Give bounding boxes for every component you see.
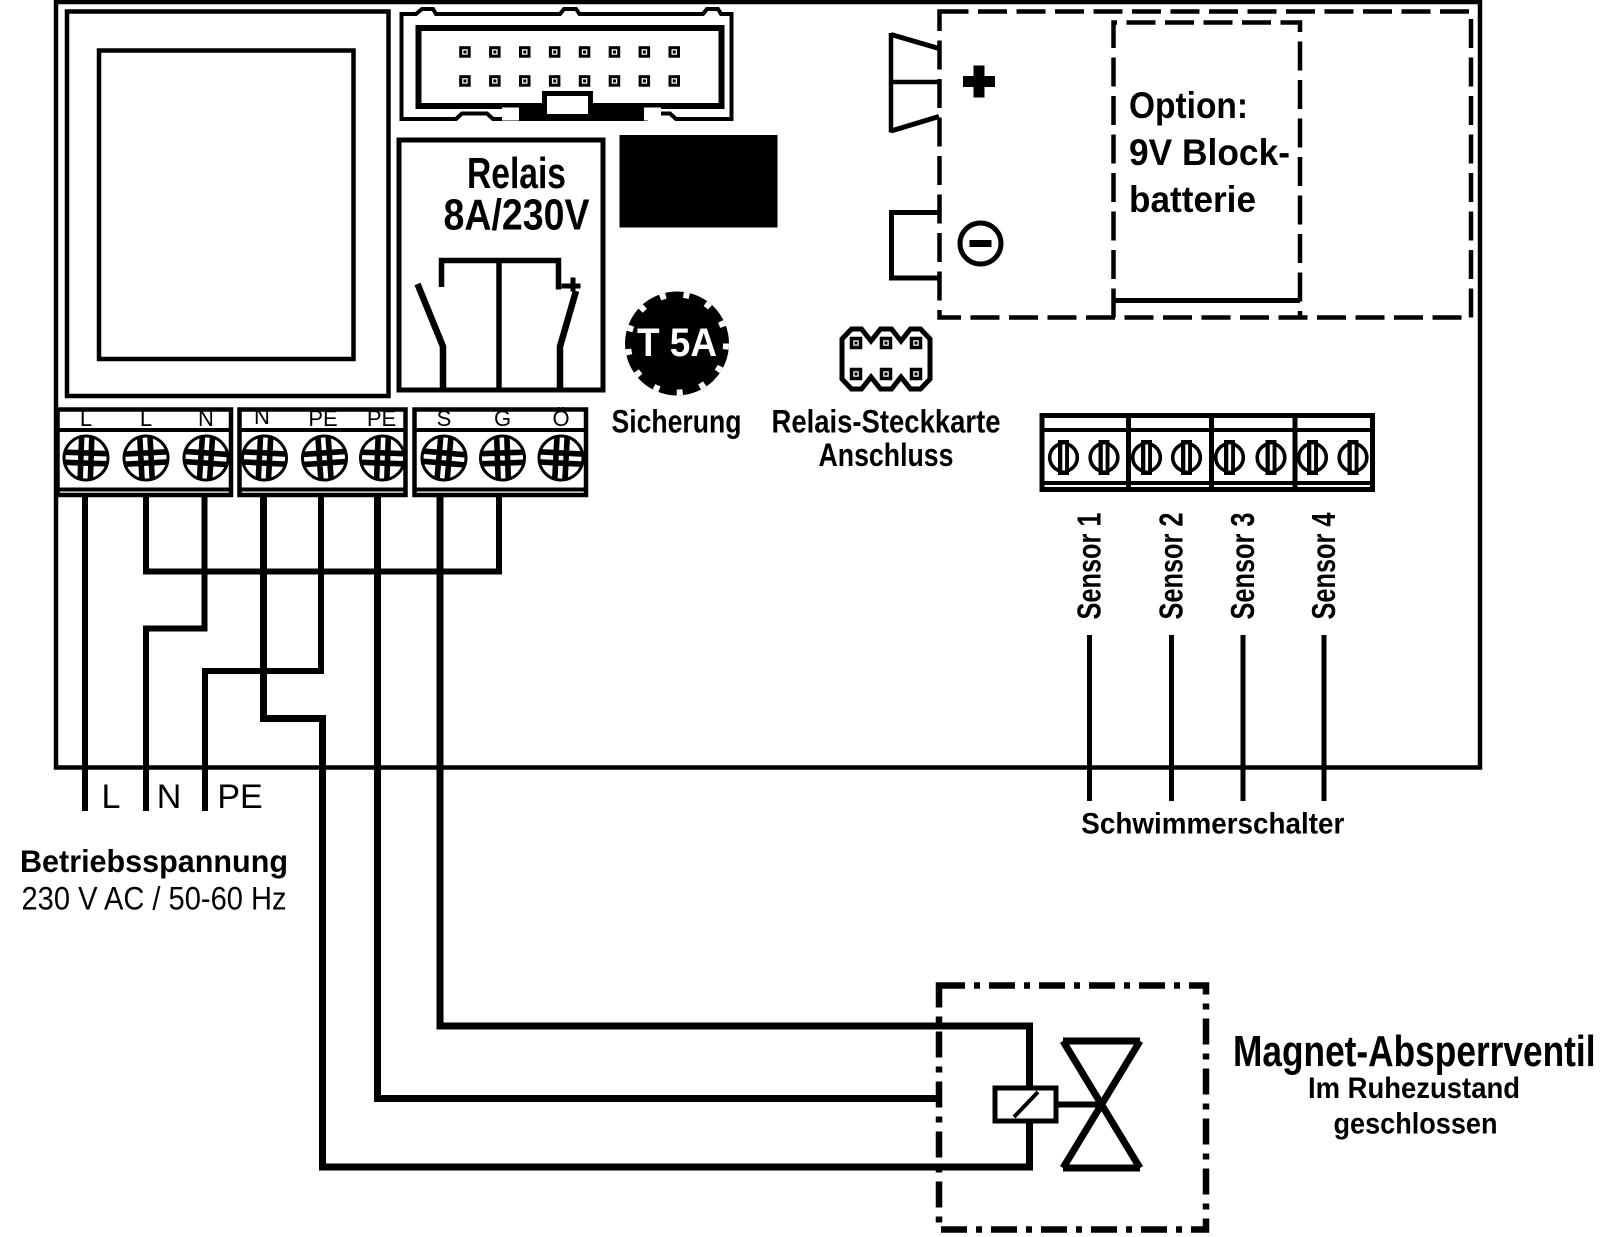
X4 Sensor 2 screw terminals <box>1133 440 1201 475</box>
svg-text:Sensor 1: Sensor 1 <box>1071 513 1108 620</box>
svg-text:Relais-Steckkarte: Relais-Steckkarte <box>772 404 1001 440</box>
svg-text:Im Ruhezustand: Im Ruhezustand <box>1308 1072 1520 1105</box>
minus clip symbol <box>892 213 942 279</box>
IDC connector J1 body <box>419 28 722 106</box>
display module inner window <box>99 51 354 360</box>
IDC connector J1 outline <box>402 9 732 119</box>
sensor wire 2 <box>1169 635 1174 801</box>
relay coil center lead <box>496 261 502 391</box>
X4 Sensor 4 screw terminals <box>1299 440 1367 475</box>
svg-text:Betriebsspannung: Betriebsspannung <box>20 843 288 879</box>
svg-text:N: N <box>254 404 270 429</box>
sensor terminal block X4 <box>1042 416 1373 490</box>
svg-text:230 V AC / 50-60 Hz: 230 V AC / 50-60 Hz <box>22 881 287 917</box>
display module outer frame <box>67 12 389 397</box>
X4 Sensor 1 screw terminals <box>1050 440 1118 475</box>
valve symbol <box>1063 1041 1140 1168</box>
minus terminal mark <box>960 223 1001 264</box>
svg-text:T 5A: T 5A <box>637 321 717 365</box>
plus terminal mark <box>963 66 995 98</box>
svg-text:PE: PE <box>308 406 337 431</box>
terminal block X2 (N PE PE) <box>240 410 406 496</box>
IDC connector J1 key area <box>519 103 644 121</box>
svg-text:Sensor 4: Sensor 4 <box>1305 512 1342 619</box>
svg-text:N: N <box>157 778 182 816</box>
svg-text:Sicherung: Sicherung <box>612 404 742 440</box>
wire PE2 to valve earth <box>378 495 941 1099</box>
X2 screw 3 <box>360 435 406 481</box>
svg-text:L: L <box>140 406 152 431</box>
svg-text:Sensor 2: Sensor 2 <box>1153 513 1190 620</box>
relay NC mark (plus) <box>562 278 581 292</box>
sensor wire 3 <box>1241 635 1246 801</box>
svg-text:9V Block-: 9V Block- <box>1129 132 1290 173</box>
svg-text:PE: PE <box>217 778 262 816</box>
X3 screw 3 <box>538 435 584 481</box>
svg-text:Anschluss: Anschluss <box>819 437 954 473</box>
buzzer / plus clip symbol <box>889 33 894 133</box>
wire S to valve coil feed <box>440 495 1030 1088</box>
svg-text:L: L <box>102 778 121 816</box>
wire N1 to mains N exit <box>146 495 205 811</box>
relay switch blade left (S) <box>418 284 444 390</box>
wire L1 (mains L) <box>82 495 88 811</box>
wire N2 to valve coil return <box>264 495 1030 1167</box>
relay box K1 <box>399 140 603 390</box>
X4 Sensor 3 screw terminals <box>1216 440 1285 475</box>
svg-text:Ö: Ö <box>552 406 569 431</box>
svg-text:geschlossen: geschlossen <box>1334 1108 1498 1141</box>
svg-text:N: N <box>198 406 214 431</box>
relay contact bracket <box>442 261 559 290</box>
fuse F1 body <box>625 292 729 396</box>
relay card header J2 outline <box>842 329 930 389</box>
svg-text:PE: PE <box>367 406 396 431</box>
svg-text:L: L <box>80 406 92 431</box>
X1 screw 2 <box>123 435 169 481</box>
IDC connector J1 pins <box>459 46 680 86</box>
svg-text:Magnet-Absperrventil: Magnet-Absperrventil <box>1233 1027 1596 1076</box>
svg-text:batterie: batterie <box>1129 179 1256 220</box>
svg-text:G: G <box>494 406 511 431</box>
IDC connector J1 polarization key <box>545 94 591 117</box>
sensor wire 1 <box>1087 635 1092 801</box>
wire L2 to relay common G <box>146 495 499 572</box>
solenoid coil <box>995 1088 1056 1121</box>
svg-text:Schwimmerschalter: Schwimmerschalter <box>1081 808 1344 841</box>
svg-text:Option:: Option: <box>1129 85 1248 126</box>
9V battery bottom plate <box>1114 298 1301 303</box>
board outline <box>56 2 1480 768</box>
black module (transformer) <box>620 135 778 228</box>
X2 screw 2 <box>301 435 348 482</box>
valve dash-dot enclosure <box>939 986 1206 1230</box>
battery option dashed enclosure <box>940 12 1472 318</box>
svg-text:Sensor 3: Sensor 3 <box>1224 513 1261 620</box>
svg-text:S: S <box>437 406 452 431</box>
relay switch blade right (Ö) <box>560 291 576 390</box>
X1 screw 1 <box>63 435 109 481</box>
coil to valve link <box>1056 1102 1102 1108</box>
X2 screw 1 <box>241 435 287 481</box>
svg-text:8A/230V: 8A/230V <box>444 191 591 240</box>
X1 screw 3 <box>183 435 230 482</box>
9V battery dashed outline <box>1114 23 1301 318</box>
relay card header J2 pins <box>850 337 923 381</box>
sensor wire 4 <box>1322 635 1327 801</box>
terminal block X3 (S G Ö) <box>415 410 587 496</box>
terminal block X1 (L L N) <box>58 410 232 496</box>
X3 screw 1 <box>420 434 468 482</box>
X3 screw 2 <box>480 435 526 481</box>
wire PE1 to mains PE exit <box>205 495 321 811</box>
